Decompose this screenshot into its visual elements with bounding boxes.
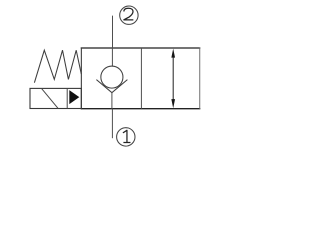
wire port 2 <box>112 16 114 48</box>
flow arrow head bottom <box>171 99 175 108</box>
flow arrow shaft <box>172 54 174 104</box>
spring <box>34 50 81 82</box>
check valve ball <box>101 66 123 88</box>
valve body outline top <box>81 47 201 49</box>
solenoid diagonal <box>42 88 59 108</box>
wire from seat <box>111 93 113 109</box>
port 2 label text <box>124 8 134 20</box>
valve body outline left <box>80 47 82 109</box>
wire to check valve <box>111 48 113 67</box>
solenoid divider <box>66 88 68 108</box>
port 1 label text <box>123 130 131 142</box>
node port 1 label circle <box>117 128 135 146</box>
flow arrow head top <box>171 49 175 58</box>
node port 2 label circle <box>120 6 138 24</box>
valve body outline bottom <box>81 108 201 110</box>
valve body outline right <box>199 47 201 109</box>
solenoid arrow triangle <box>69 90 79 104</box>
solenoid coil box <box>30 88 81 108</box>
check valve seat <box>96 80 127 93</box>
position divider <box>140 48 142 109</box>
wire port 1 <box>111 109 113 139</box>
